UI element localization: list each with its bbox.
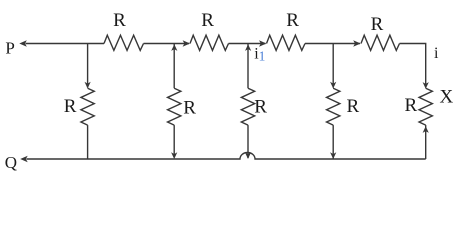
wire bottom rail Q with crossover hump (27, 153, 426, 159)
wire branch node A to bottom rail (87, 125, 89, 159)
wire branch node C to bottom rail crossover (247, 125, 249, 158)
wire branch node C down lead (247, 44, 249, 89)
wire branch node D to bottom rail (332, 125, 334, 159)
svg-text:Q: Q (5, 153, 17, 172)
svg-text:i1: i1 (254, 46, 265, 64)
arrow down on branch A lead (85, 82, 91, 89)
resistor R2 (series, top) (190, 35, 229, 50)
svg-text:R: R (347, 96, 360, 117)
svg-text:R: R (254, 97, 267, 118)
resistor R6 (shunt at node B) (168, 88, 181, 125)
wire top: R3 to R4 (305, 43, 360, 45)
svg-text:P: P (5, 38, 14, 57)
svg-text:R: R (113, 10, 126, 31)
resistor R5 (shunt at node A) (81, 88, 94, 125)
resistor R1 (series, top) (104, 35, 144, 50)
resistor R8 (shunt at node D) (327, 88, 340, 125)
arrow up at node C (245, 44, 251, 51)
svg-text:i: i (434, 45, 439, 62)
resistor R7 (shunt at node C) (241, 88, 254, 125)
wire top: R2 to R3 (229, 43, 266, 45)
arrow into P (left, top rail) (19, 40, 27, 46)
wire branch node A down lead (87, 44, 89, 88)
resistor R4 (series, top) (361, 35, 400, 50)
svg-text:X: X (440, 87, 454, 108)
svg-text:R: R (405, 95, 418, 116)
svg-text:R: R (64, 96, 77, 117)
resistor R9 (shunt X branch, right) (419, 88, 432, 125)
arrow down at branch B bottom (171, 152, 177, 159)
svg-text:R: R (286, 10, 299, 31)
arrow up at node B (171, 44, 177, 51)
resistor R3 (series, top) (267, 35, 306, 50)
svg-text:R: R (371, 14, 384, 35)
wire right branch bottom: X to bottom rail corner (425, 125, 427, 159)
arrow down on X branch top lead (423, 82, 429, 89)
arrow up at X branch bottom (423, 126, 429, 133)
arrow right before R2 (183, 40, 190, 46)
arrow down at branch D bottom (330, 152, 336, 159)
svg-text:R: R (201, 10, 214, 31)
wire branch node B down lead (173, 44, 175, 89)
arrow down at branch C bottom (245, 152, 251, 159)
arrow into Q (left, bottom rail) (20, 156, 28, 162)
wire top right: R4 to corner, down to node i (400, 44, 426, 88)
arrow down on branch D lead (330, 82, 336, 89)
arrow right before R3 (259, 40, 266, 46)
svg-text:R: R (183, 98, 196, 119)
arrow right before R4 (353, 40, 360, 46)
wire branch node B to bottom rail (173, 125, 175, 157)
wire top: P lead to R1 (26, 43, 105, 45)
wire branch node D down lead (332, 44, 334, 88)
wire top: R1 to R2 (144, 43, 190, 45)
